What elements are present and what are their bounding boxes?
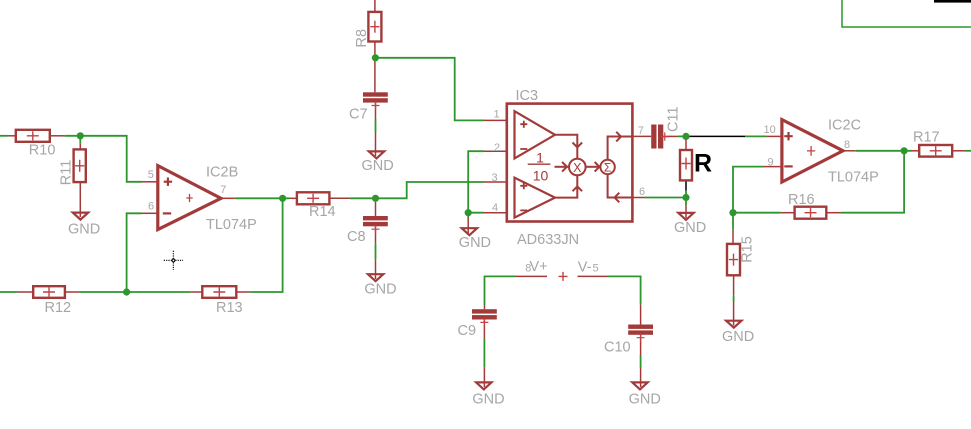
pin stub IC3 pin2 (484, 150, 507, 152)
svg-text:C11: C11 (666, 106, 682, 132)
path pin6 to sigma with arrow (608, 174, 633, 197)
path sigma to pin7 with arrow (608, 137, 633, 160)
pin stub R17 right to edge (952, 150, 965, 152)
pin stub C8 top (375, 202, 377, 216)
pin stub C10 top (640, 305, 642, 325)
pin stub C8 bottom to gnd (375, 226, 377, 244)
pin stub C9 gnd (483, 368, 485, 387)
pin stub R16 right (826, 212, 841, 214)
multiplier circle X (569, 159, 586, 176)
capacitor C9 (472, 309, 497, 326)
pin stub gnd under node R (685, 206, 687, 218)
wire left edge to R10 (0, 135, 9, 137)
pin stub R13 left (190, 291, 202, 293)
wire R10 to junction to IC2B pin5 (64, 136, 142, 182)
svg-text:6: 6 (148, 201, 154, 213)
capacitor C8 (363, 216, 388, 233)
pin stub IC2C pin9 (764, 166, 782, 168)
path lower buffer to X with arrow (555, 175, 577, 197)
capacitor C11 (651, 125, 669, 149)
wire net R8/C7 to IC3 pin1 (375, 58, 484, 121)
svg-text:7: 7 (638, 125, 644, 137)
wire pin4 junction down to gnd (467, 213, 469, 218)
junction C11/R node (682, 133, 689, 140)
wire left edge to R12 (0, 291, 17, 293)
wire IC2C pin9 loop (733, 167, 764, 213)
pin stub R16 left (781, 212, 795, 214)
svg-text:GND: GND (68, 221, 100, 237)
resistor R8 (368, 12, 381, 42)
resistor R11 (74, 149, 86, 182)
wire IC2B pin6 to R12/R13 junction (127, 213, 142, 292)
ground under C9 (476, 382, 491, 389)
frame corner (green sheet border, top right) (842, 0, 971, 27)
resistor R12 (33, 286, 65, 298)
svg-text:GND: GND (722, 329, 754, 345)
wire supply V+ to C9 (485, 276, 516, 305)
pin stub C9 bottom (483, 320, 485, 339)
svg-text:Σ: Σ (604, 161, 611, 175)
resistor R17 (919, 145, 952, 157)
junction IC2C output node (901, 147, 908, 154)
pin stub R8 top (374, 0, 376, 12)
resistor R (load) (680, 150, 692, 180)
pin V+ supply (pin 8) (515, 275, 547, 277)
wire junction to R11 (79, 136, 81, 144)
wire green segment to pin10 (745, 135, 766, 137)
ground under IC3 pin4 (462, 228, 477, 235)
svg-text:1: 1 (494, 108, 500, 120)
pin stub IC3 pin1 (484, 119, 507, 121)
junction R12/R13 node (123, 288, 130, 295)
svg-text:X: X (573, 161, 582, 175)
svg-text:GND: GND (362, 158, 394, 174)
wire output to right edge (966, 150, 971, 152)
svg-text:7: 7 (220, 184, 226, 196)
pin stub C7 to gnd (375, 133, 377, 157)
svg-text:4: 4 (492, 202, 498, 214)
pin stub C8 gnd lower (375, 259, 377, 279)
junction IC3 pin4 gnd node (465, 209, 472, 216)
pin stub IC3 pin6 (632, 197, 645, 199)
svg-text:R17: R17 (913, 130, 940, 146)
minus marker pin2 (520, 148, 527, 150)
wire node down to gnd (685, 198, 687, 206)
pin stub IC2B pin7 (221, 197, 235, 199)
pin stub R11 top (79, 144, 81, 150)
op-amp IC2C (782, 120, 843, 182)
plus marker pin1 (520, 121, 527, 128)
svg-text:V+: V+ (530, 259, 548, 275)
junction R8/C7 node (372, 54, 379, 61)
ground under R15 (726, 321, 741, 328)
pin stub IC2B pin5 (142, 181, 158, 183)
svg-text:5: 5 (593, 263, 599, 275)
pin stub R10 right (50, 135, 65, 137)
ground under C8 (368, 274, 383, 281)
arrow fraction to X (555, 166, 569, 168)
wire supply V- to C10 (608, 276, 641, 304)
wire R14 to C8 junction (350, 197, 376, 199)
svg-text:8: 8 (844, 139, 850, 151)
svg-text:AD633JN: AD633JN (517, 232, 579, 248)
pin stub R12 left (17, 291, 33, 293)
sheet origin crosshair (164, 251, 183, 270)
svg-text:TL074P: TL074P (206, 217, 257, 233)
multiplier IC3 AD633JN (507, 104, 633, 222)
svg-text:R8: R8 (354, 29, 370, 48)
pin stub pin4 gnd (467, 218, 469, 234)
pin stub IC2B pin6 (142, 212, 158, 214)
wire C8 gnd green segment (375, 244, 377, 259)
svg-text:IC2C: IC2C (828, 117, 861, 133)
pin stub R11 bottom to gnd (79, 182, 81, 217)
svg-text:C8: C8 (347, 229, 366, 245)
svg-text:9: 9 (768, 157, 774, 169)
wire R12 to junction to R13 (79, 291, 191, 293)
svg-text:6: 6 (639, 186, 645, 198)
svg-text:R10: R10 (29, 143, 56, 159)
svg-text:R: R (694, 150, 712, 178)
svg-text:GND: GND (364, 282, 396, 298)
svg-text:2: 2 (494, 142, 500, 154)
svg-text:IC2B: IC2B (206, 165, 238, 181)
pin stub R15 gnd (733, 302, 735, 326)
supply gate origin cross (559, 272, 568, 281)
summer circle sigma (600, 160, 614, 174)
pin stub C10 bottom (640, 335, 642, 355)
pin stub IC2C pin8 (841, 150, 856, 152)
junction R/pin6 gnd node (682, 194, 689, 201)
wire C8 junction to IC3 pin3 (376, 182, 485, 198)
pin stub IC2C pin10 (766, 135, 782, 137)
wire IC2B output row (235, 197, 289, 199)
pin stub C7 bottom (375, 103, 377, 119)
arrow X to sigma (586, 166, 601, 168)
svg-text:3: 3 (492, 172, 498, 184)
wire C10 to gnd segment (640, 355, 642, 368)
svg-text:10: 10 (764, 124, 776, 136)
wire R bottom (black segment) (685, 180, 687, 190)
svg-text:C7: C7 (349, 107, 368, 123)
pin stub IC3 pin3 (484, 181, 507, 183)
op-amp IC2B (158, 166, 221, 230)
wire C7 mid segment (375, 119, 377, 133)
wire junction to R16 (733, 212, 781, 214)
resistor R16 (795, 207, 827, 219)
pin stub IC3 pin4 (484, 212, 507, 214)
svg-text:1: 1 (536, 150, 544, 166)
ground under R node (678, 213, 693, 220)
wire C9 to gnd segment (483, 339, 485, 368)
pin stub R top (685, 136, 687, 150)
wire IC3 pin2 to pin4 to gnd (468, 151, 484, 213)
wire R16 to output riser (841, 151, 904, 213)
resistor R14 (297, 192, 330, 204)
path upper buffer to X with arrow (555, 135, 577, 159)
wire junction down to R15 (732, 213, 734, 230)
minus marker pin4 (520, 209, 527, 211)
wire R13 to feedback riser (250, 198, 282, 292)
resistor R15 (727, 244, 740, 275)
wire IC2C output to junction (856, 150, 912, 152)
pin stub C11 right (663, 135, 678, 137)
svg-text:R11: R11 (59, 160, 75, 186)
gain fraction 1/10 (528, 163, 551, 165)
resistor R13 (202, 286, 236, 298)
svg-text:5: 5 (148, 169, 154, 181)
svg-text:TL074P: TL074P (828, 170, 879, 186)
svg-text:GND: GND (674, 220, 706, 236)
svg-text:10: 10 (533, 167, 549, 183)
svg-text:GND: GND (472, 391, 504, 407)
pin V- supply (pin 5) (578, 275, 609, 277)
svg-text:GND: GND (629, 391, 661, 407)
wire R15 to gnd segment (733, 296, 735, 302)
svg-text:R13: R13 (216, 300, 243, 316)
svg-text:IC3: IC3 (516, 88, 539, 104)
pin stub R17 left (912, 150, 920, 152)
svg-text:R15: R15 (740, 236, 756, 263)
ground under R11 (73, 213, 88, 220)
svg-text:C9: C9 (458, 323, 477, 339)
svg-text:R12: R12 (45, 300, 72, 316)
svg-text:R16: R16 (788, 192, 815, 208)
ground under C7 (369, 151, 384, 158)
pin stub IC3 pin7 (632, 135, 651, 137)
junction R14/C8 node (372, 195, 379, 202)
pin stub R15 bottom (733, 275, 735, 296)
pin stub R14 right (329, 197, 350, 199)
wire node to IC2C pin10 (black segment) (686, 135, 745, 137)
wire C11 to node (678, 135, 686, 137)
buffer triangle upper (515, 111, 556, 158)
capacitor C7 (363, 92, 388, 109)
plus marker pin3 (520, 182, 527, 189)
svg-text:R14: R14 (309, 204, 336, 220)
pin stub R10 left (9, 135, 16, 137)
wire R bottom green to node (685, 191, 687, 198)
resistor R10 (16, 130, 50, 142)
pin stub R15 top (732, 230, 734, 244)
black bar (cut-off element, top right) (934, 0, 971, 3)
svg-text:GND: GND (459, 235, 491, 251)
pin stub C10 gnd (640, 368, 642, 387)
pin stub R14 left (289, 197, 297, 199)
junction R10/R11 node (77, 132, 84, 139)
svg-text:V-: V- (578, 259, 592, 275)
svg-text:C10: C10 (604, 339, 631, 355)
pin stub R12 right (65, 291, 79, 293)
junction R15/R16 node (729, 209, 736, 216)
ground under C10 (632, 382, 647, 389)
capacitor C10 (628, 325, 653, 342)
wire junction to C8 (375, 198, 377, 202)
buffer triangle lower (515, 178, 556, 218)
junction IC2B output node (279, 195, 286, 202)
pin stub C9 top (484, 305, 486, 309)
wire IC3 pin6 to node (645, 197, 686, 199)
pin stub R13 right (236, 291, 250, 293)
pin stub R8 bottom / C7 top (374, 42, 376, 93)
